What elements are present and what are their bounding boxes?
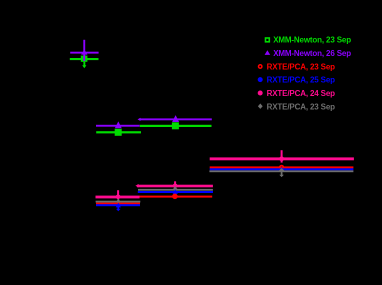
red band4 point: open circle marker (peeking above line)	[280, 165, 284, 169]
svg-text:RXTE/PCA, 24 Sep: RXTE/PCA, 24 Sep	[267, 89, 336, 98]
legend entry 3 marker: red open circle	[259, 65, 262, 68]
band4 (right): pink x error bar	[210, 157, 354, 160]
violet point 3: left arrowhead	[138, 118, 141, 121]
green point 2 (band 2 left): x error bar	[96, 131, 141, 133]
svg-text:RXTE/PCA, 23 Sep: RXTE/PCA, 23 Sep	[267, 62, 336, 71]
svg-text:XMM-Newton, 26 Sep: XMM-Newton, 26 Sep	[273, 49, 351, 58]
pink point: circle marker	[173, 184, 178, 189]
svg-text:RXTE/PCA, 25 Sep: RXTE/PCA, 25 Sep	[267, 76, 336, 85]
RXTE band3 left: pink (24 Sep) x error bar	[96, 196, 140, 199]
red band4: x error bar	[210, 166, 354, 168]
red (23 Sep) band3 left: x error bar	[96, 203, 140, 205]
green point 3: square marker	[172, 122, 179, 129]
violet point 3 (band 2 right): x error bar with left arrow	[139, 118, 212, 120]
gray (23 Sep) band3 left: x error bar	[96, 201, 141, 203]
blue (25 Sep) band3 left: x error bar	[96, 204, 140, 206]
legend entry 4 marker: blue filled circle	[258, 77, 263, 82]
blue band4 point: triangle marker	[279, 167, 284, 172]
pink point: y error bar	[174, 181, 176, 187]
green point 1: lower limit arrowhead	[82, 65, 86, 68]
series XMM-Newton 26 Sep (violet), point 1: x error bar	[70, 52, 98, 54]
violet point 3: triangle marker	[172, 115, 179, 122]
pink point: circle marker	[116, 195, 121, 200]
gray point: diamond marker	[116, 199, 121, 204]
band3 right: pink x error bar with left arrow	[137, 185, 213, 188]
blue band4: x error bar	[210, 168, 354, 170]
gray point: lower limit stem	[281, 172, 283, 175]
violet point 1: y error bar	[83, 40, 85, 61]
blue point: triangle marker	[173, 189, 178, 194]
legend entry 6 marker: gray diamond	[258, 104, 263, 109]
violet point 1: triangle marker	[81, 50, 87, 55]
legend entry 2 marker: violet filled triangle	[265, 50, 271, 55]
legend entry 5 marker: pink filled circle	[258, 91, 263, 96]
blue point: triangle marker	[116, 203, 121, 208]
series XMM-Newton 23 Sep (green), point 1: x error bar	[70, 58, 99, 60]
green point 1: y error bar lower stem	[83, 55, 85, 67]
pink left arrowhead	[135, 184, 138, 188]
blue band3 right: x error bar	[138, 191, 213, 193]
pink point: circle marker	[279, 156, 284, 161]
pink point: y error bar	[281, 150, 283, 162]
violet point 2: triangle marker	[115, 121, 122, 128]
green point 1: square marker	[81, 56, 88, 62]
red band3 right: x error bar	[140, 196, 213, 198]
red point: filled circle marker	[172, 194, 178, 200]
gray point: diamond marker	[173, 187, 178, 192]
green point 2: square marker	[115, 129, 122, 136]
legend entry 1 marker: green open square	[266, 38, 270, 42]
gray band3 right: x error bar	[138, 189, 213, 191]
pink point: y error bar	[117, 190, 119, 199]
gray band4: x error bar	[209, 170, 353, 172]
gray point: lower limit arrowhead	[279, 175, 284, 177]
violet point 2 (band 2 left): x error bar	[96, 125, 140, 127]
gray point: diamond marker	[279, 168, 284, 173]
svg-text:XMM-Newton, 23 Sep: XMM-Newton, 23 Sep	[273, 36, 351, 45]
green point 3 (band 2 right): x error bar	[140, 125, 212, 127]
gray point: y error bar	[117, 199, 119, 206]
gray point: y error bar	[174, 187, 176, 195]
svg-text:RXTE/PCA, 23 Sep: RXTE/PCA, 23 Sep	[267, 102, 336, 111]
blue point: lower limit stem	[117, 206, 119, 209]
blue point: lower limit arrowhead	[116, 209, 121, 211]
